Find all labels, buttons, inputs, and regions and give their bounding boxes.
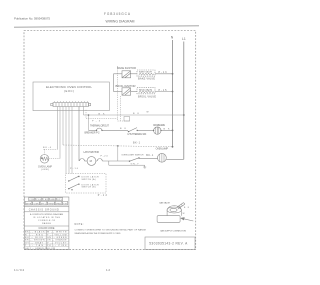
svg-text:BAKE IGNITOR: BAKE IGNITOR — [117, 66, 136, 70]
svg-text:GRND: GRND — [56, 203, 62, 205]
svg-text:OVEN LAMP: OVEN LAMP — [156, 147, 169, 150]
svg-text:IS LOCATED IN THE: IS LOCATED IN THE — [33, 216, 61, 219]
svg-text:P-10: P-10 — [70, 168, 79, 170]
svg-text:TERM: TERM — [48, 203, 54, 205]
svg-text:N: N — [171, 36, 174, 40]
svg-text:SWITCH (A): SWITCH (A) — [82, 178, 96, 181]
svg-text:BK-1: BK-1 — [133, 141, 141, 144]
svg-text:FGB345GCA: FGB345GCA — [104, 12, 131, 16]
svg-text:(40W): (40W) — [41, 169, 49, 171]
svg-text:GAS VALVE: GAS VALVE — [159, 202, 171, 205]
svg-text:BROIL VALVE: BROIL VALVE — [139, 88, 153, 91]
svg-text:LHS THERMAL SW.: LHS THERMAL SW. — [128, 133, 147, 136]
svg-text:PLG: PLG — [36, 199, 41, 201]
svg-text:A COMPLETE WIRING DIAGRAM: A COMPLETE WIRING DIAGRAM — [30, 213, 63, 216]
svg-text:NOTE:: NOTE: — [75, 223, 84, 226]
svg-text:RANGE: RANGE — [42, 222, 52, 225]
svg-text:CONN: CONN — [33, 203, 39, 205]
svg-text:SW: SW — [63, 203, 67, 205]
svg-text:Publication No. 5995438075: Publication No. 5995438075 — [14, 17, 50, 21]
svg-text:GN-Y -- GREEN-YELLOW: GN-Y -- GREEN-YELLOW — [25, 248, 55, 250]
svg-text:CONSOLE OF: CONSOLE OF — [38, 220, 56, 222]
svg-text:W: W — [183, 213, 185, 215]
svg-text:P-24: P-24 — [101, 156, 109, 158]
svg-text:BK: BK — [184, 207, 190, 209]
svg-text:OVEN LIGHT SWITCH: OVEN LIGHT SWITCH — [121, 154, 143, 156]
svg-text:P-15: P-15 — [159, 89, 168, 92]
svg-text:CHASSIS GROUND: CHASSIS GROUND — [29, 209, 59, 212]
svg-text:M: M — [90, 159, 93, 163]
svg-text:BAKE VALVE: BAKE VALVE — [139, 71, 153, 74]
svg-text:GN-Y: GN-Y — [131, 164, 140, 166]
svg-text:BK: BK — [120, 128, 127, 130]
svg-text:WHEN REPLACING THE POWER SUPPL: WHEN REPLACING THE POWER SUPPLY CORD — [75, 232, 121, 235]
svg-text:LATCH MOTOR: LATCH MOTOR — [84, 151, 100, 154]
svg-text:12: 12 — [106, 268, 110, 272]
svg-text:CONNECT GREEN WIRE TO GROUNDED: CONNECT GREEN WIRE TO GROUNDED METAL PAR… — [75, 229, 147, 232]
svg-text:P-13: P-13 — [159, 71, 168, 74]
svg-text:P-12: P-12 — [98, 194, 108, 197]
svg-text:SPL: SPL — [57, 199, 62, 201]
svg-text:BK-1: BK-1 — [146, 154, 154, 157]
svg-text:GAS SUPPLY CONNECTION: GAS SUPPLY CONNECTION — [160, 229, 186, 232]
svg-text:BREAKER P-2: BREAKER P-2 — [85, 131, 101, 134]
svg-text:TER: TER — [43, 199, 48, 201]
svg-text:COLOR CODE: COLOR CODE — [39, 227, 55, 230]
svg-text:OVEN LAMP: OVEN LAMP — [38, 165, 52, 168]
svg-text:WIRING DIAGRAM: WIRING DIAGRAM — [106, 19, 135, 23]
svg-text:L1: L1 — [182, 37, 186, 41]
svg-text:WIRE: WIRE — [26, 203, 32, 205]
svg-text:SWITCH (B): SWITCH (B) — [82, 187, 96, 189]
svg-text:(EOC): (EOC) — [64, 89, 74, 93]
svg-text:GND: GND — [50, 199, 55, 201]
svg-text:11/04: 11/04 — [14, 268, 24, 272]
svg-text:P-3: P-3 — [92, 121, 101, 123]
svg-text:CON: CON — [29, 199, 34, 201]
svg-text:BAKE VALVE: BAKE VALVE — [138, 77, 155, 81]
svg-text:THERMAL CIRCUIT: THERMAL CIRCUIT — [90, 125, 110, 128]
svg-text:BROIL VALVE: BROIL VALVE — [138, 94, 156, 98]
svg-text:W: W — [147, 112, 149, 114]
svg-text:SPLC: SPLC — [41, 203, 47, 205]
svg-text:COOLING FAN: COOLING FAN — [153, 124, 165, 127]
svg-text:BK-4: BK-4 — [43, 147, 52, 149]
svg-text:5303935143-2 REV. A: 5303935143-2 REV. A — [149, 242, 188, 246]
